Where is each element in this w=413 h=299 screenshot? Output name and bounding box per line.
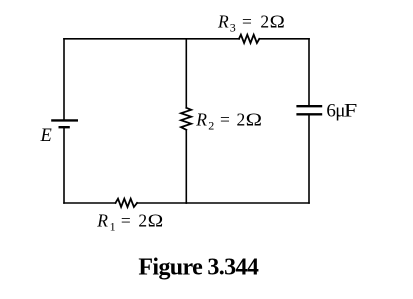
wire: R1 right lead to bottom middle junction <box>137 202 186 204</box>
svg-text:6μF: 6μF <box>326 101 357 122</box>
svg-text:E: E <box>40 126 52 146</box>
wire: middle junction to R3 left lead <box>186 38 239 40</box>
svg-text:R1=2Ω: R1=2Ω <box>96 211 163 234</box>
resistor R1 (zigzag) <box>116 199 138 207</box>
wire: R3 right lead to top-right corner <box>259 38 309 40</box>
svg-text:R2=2Ω: R2=2Ω <box>195 109 262 132</box>
capacitor C1 (6uF): bottom plate <box>296 113 322 115</box>
battery E: long positive plate <box>51 119 78 121</box>
wire: capacitor bottom plate down to bottom-right corner <box>308 115 310 203</box>
svg-text:Figure 3.344: Figure 3.344 <box>138 255 258 281</box>
wire: R2 bottom lead down to bottom junction <box>185 130 187 203</box>
wire: left side, top corner down to battery positive plate <box>63 39 65 120</box>
svg-text:R3=2Ω: R3=2Ω <box>217 11 285 34</box>
capacitor C1 (6uF): top plate <box>296 105 322 107</box>
wire: bottom middle junction to bottom-right corner <box>186 202 309 204</box>
wire: right side, top corner down to capacitor top plate <box>308 39 310 105</box>
battery E: short negative plate <box>59 126 70 128</box>
wire: middle branch, top junction down to R2 top lead <box>185 39 187 108</box>
wire: bottom-left corner to R1 left lead <box>64 202 116 204</box>
resistor R2 (zigzag) <box>181 108 191 130</box>
wire: top side, left corner to middle junction <box>64 38 186 40</box>
wire: battery negative plate down to bottom-left corner <box>63 128 65 203</box>
resistor R3 (zigzag) <box>239 35 259 43</box>
